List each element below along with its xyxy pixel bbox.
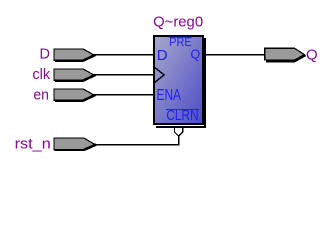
svg-text:clk: clk <box>32 67 51 83</box>
svg-text:Q: Q <box>190 47 200 61</box>
svg-text:D: D <box>40 47 50 63</box>
flip-flop Q~reg0 shadow bottom <box>156 126 206 128</box>
svg-text:Q: Q <box>306 46 318 63</box>
flip-flop Q~reg0 shadow right <box>204 38 206 128</box>
svg-text:ENA: ENA <box>157 87 182 104</box>
svg-text:Q~reg0: Q~reg0 <box>153 14 203 31</box>
output pin Q shadow <box>266 55 306 61</box>
wire rst_n horizontal segment <box>94 144 180 146</box>
wire flip-flop Q output to pin Q <box>203 54 266 56</box>
wire clk input to flip-flop <box>92 74 154 76</box>
svg-text:en: en <box>33 87 49 103</box>
CLRN active-low bubble <box>175 127 183 136</box>
input pin rst_n shadow <box>55 149 85 151</box>
input pin en shadow <box>55 100 84 102</box>
clock triangle marker <box>154 67 164 83</box>
input pin clk <box>54 69 94 80</box>
wire D input to flip-flop <box>92 54 154 56</box>
svg-text:rst_n: rst_n <box>15 136 51 152</box>
CLRN overline <box>166 109 199 111</box>
input pin en <box>54 89 94 100</box>
flip-flop Q~reg0 body <box>154 36 203 124</box>
input pin clk shadow <box>55 80 84 82</box>
input pin D <box>54 49 94 60</box>
input pin rst_n <box>54 138 95 150</box>
output pin Q <box>265 48 305 60</box>
wire en input to flip-flop <box>92 94 154 96</box>
input pin D shadow <box>55 60 84 62</box>
svg-text:PRE: PRE <box>169 37 192 49</box>
svg-text:D: D <box>157 47 168 64</box>
PRE overline <box>169 36 192 38</box>
wire rst_n vertical segment to CLRN bubble <box>178 136 180 146</box>
